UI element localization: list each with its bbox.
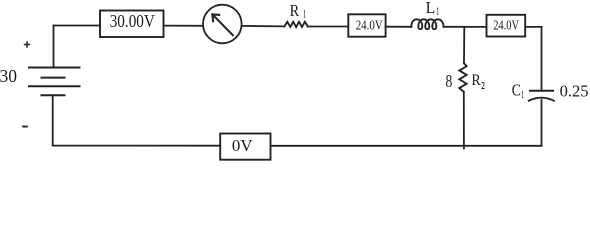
svg-text:2: 2 [481, 80, 485, 92]
wire meter to resistor R1 [242, 25, 285, 28]
svg-text:0.25: 0.25 [560, 81, 589, 100]
wire right vertical down to capacitor [541, 27, 543, 91]
wire box2 to right corner [525, 26, 541, 28]
svg-text:0V: 0V [232, 136, 253, 155]
svg-text:1: 1 [437, 6, 439, 18]
svg-text:C: C [512, 81, 521, 100]
voltmeter box 24.0V (first) [348, 14, 385, 36]
voltmeter box 0V [220, 134, 270, 160]
meter M1 arrowhead barb vertical [211, 14, 214, 21]
svg-text:1: 1 [303, 9, 305, 21]
svg-text:1: 1 [522, 90, 524, 101]
svg-text:30.00V: 30.00V [110, 11, 156, 31]
wire 30.00V box to meter [164, 25, 204, 27]
battery B1 plate short bottom [42, 94, 65, 96]
capacitor C1 top plate [530, 90, 553, 92]
wire R1 to 24.0V box1 [308, 26, 349, 28]
meter M1 circle [203, 5, 242, 44]
voltmeter box 24.0V (second) [487, 15, 526, 37]
wire battery top vertical [53, 26, 55, 68]
svg-text:24.0V: 24.0V [493, 18, 519, 33]
resistor R1 zigzag [285, 22, 308, 27]
svg-text:8: 8 [446, 71, 453, 91]
capacitor C1 curved bottom plate [529, 98, 554, 101]
wire battery bottom vertical [52, 95, 54, 145]
wire capacitor to bottom [541, 100, 543, 146]
inductor L1 coil [411, 19, 443, 29]
minus sign battery negative [22, 126, 28, 128]
plus sign battery positive [24, 41, 30, 47]
battery B1 plate short [42, 77, 65, 79]
node junction top of R2 branch [463, 27, 465, 63]
wire bottom rail right segment [271, 145, 542, 147]
wire top from battery to 30.00V box [54, 25, 101, 27]
wire box1 to inductor L1 [386, 26, 412, 28]
meter M1 needle arrow [213, 15, 233, 35]
wire L1 to junction and to 24.0V box2 [444, 26, 487, 28]
meter M1 arrowhead barb horizontal [212, 13, 219, 16]
svg-text:R: R [472, 72, 481, 89]
svg-text:24.0V: 24.0V [356, 19, 383, 34]
wire R2 bottom to bottom rail [463, 92, 465, 149]
battery B1 plate long [29, 85, 80, 87]
wire bottom rail left segment [53, 145, 221, 147]
resistor R2 zigzag vertical [459, 63, 466, 92]
battery B1 plate long top [29, 67, 80, 69]
svg-text:30: 30 [0, 66, 17, 86]
svg-text:R: R [290, 1, 300, 20]
voltmeter box 30.00V [100, 11, 164, 38]
svg-text:L: L [426, 0, 436, 17]
